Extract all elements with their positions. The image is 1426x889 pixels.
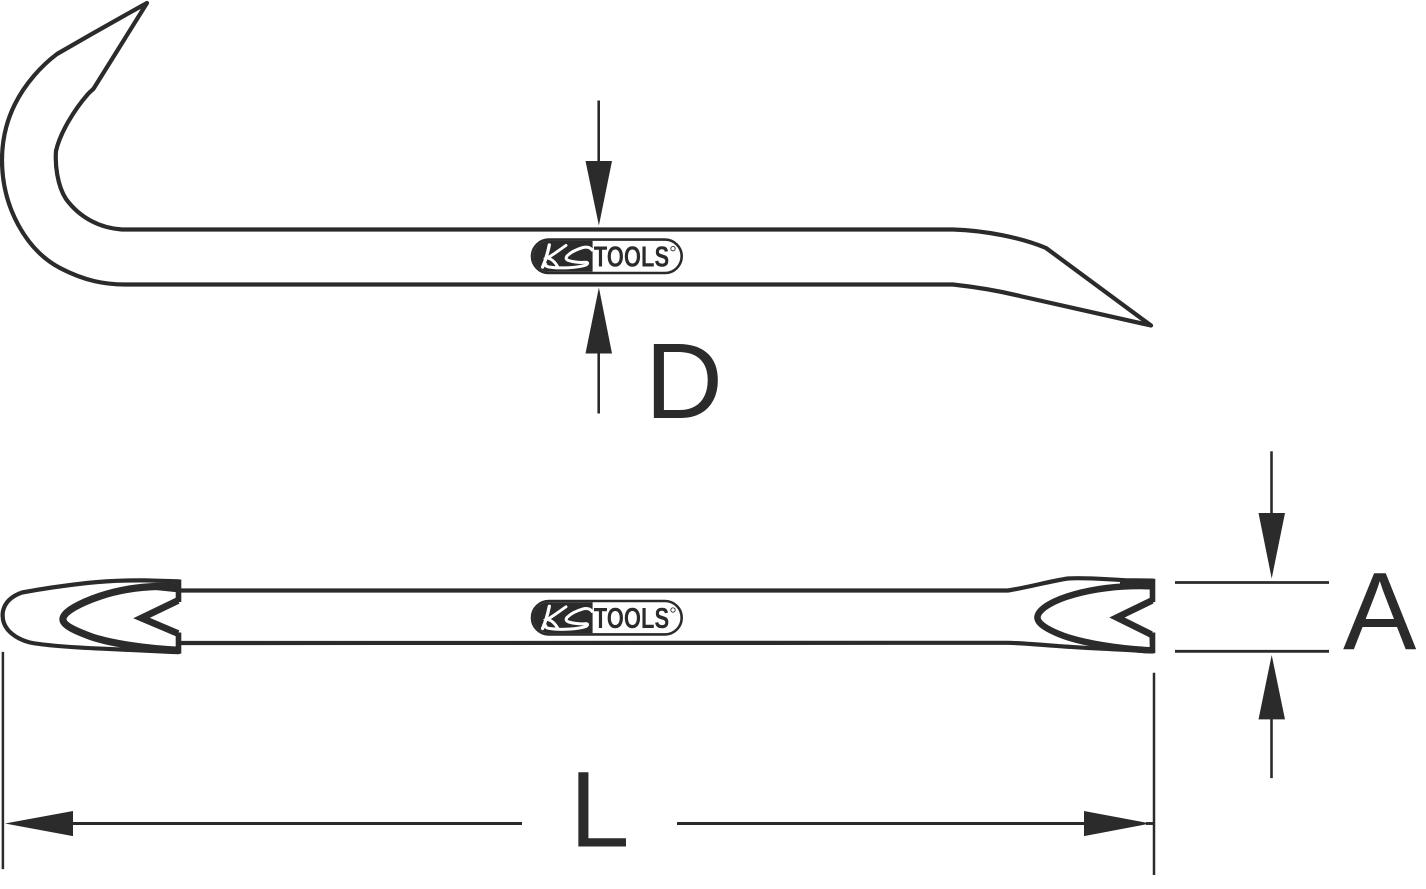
svg-text:L: L [570, 749, 630, 870]
svg-text:A: A [1343, 550, 1417, 673]
svg-text:D: D [645, 320, 723, 441]
